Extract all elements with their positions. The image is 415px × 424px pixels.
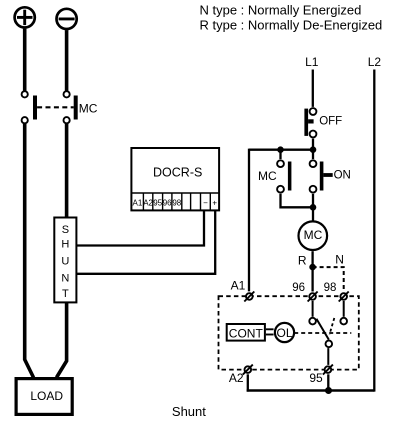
overload element OL <box>275 323 294 342</box>
dashed wire N option to 98 <box>313 267 344 291</box>
wire shunt bottom to LOAD <box>57 302 67 377</box>
svg-text:MC: MC <box>304 228 323 242</box>
svg-text:T: T <box>62 288 69 300</box>
svg-text:R type : Normally De-Energized: R type : Normally De-Energized <box>200 17 383 32</box>
svg-text:A2: A2 <box>229 371 244 385</box>
svg-text:N: N <box>335 253 344 267</box>
svg-text:96: 96 <box>292 282 305 294</box>
terminal A1 <box>244 292 254 302</box>
pushbutton OFF (NC) <box>304 108 316 137</box>
load box LOAD <box>16 379 72 415</box>
svg-text:ON: ON <box>334 169 351 181</box>
control unit CONT <box>227 324 265 341</box>
svg-text:A1: A1 <box>231 279 246 293</box>
contact point 96 side <box>309 318 316 325</box>
svg-text:98: 98 <box>172 199 181 208</box>
svg-text:MC: MC <box>79 101 98 115</box>
DOCR-S terminal strip <box>131 193 219 210</box>
wire L1 down <box>312 70 314 107</box>
svg-text:95: 95 <box>309 371 323 385</box>
junction dot R node <box>309 264 316 271</box>
wire ON to coil <box>312 194 314 221</box>
wire coil to terminal 96 <box>311 251 313 291</box>
contactor MC main contact pole 1 <box>22 91 37 123</box>
svg-text:N type : Normally Energized: N type : Normally Energized <box>200 2 362 17</box>
svg-text:96: 96 <box>163 199 172 208</box>
wire MC aux bottom <box>281 194 314 208</box>
svg-text:LOAD: LOAD <box>30 389 63 403</box>
link CONT to OL <box>266 329 274 334</box>
wire 95 to bottom rail <box>327 374 329 390</box>
svg-text:L2: L2 <box>368 55 382 69</box>
wire 96 to contact <box>312 301 314 317</box>
battery positive terminal <box>15 7 35 27</box>
svg-text:OL: OL <box>276 326 292 340</box>
MC contact linkage dashed <box>37 106 74 108</box>
common contact point <box>326 341 333 348</box>
svg-text:U: U <box>61 255 69 267</box>
svg-text:Shunt: Shunt <box>172 404 206 419</box>
shunt resistor SHUNT <box>54 218 76 303</box>
svg-text:+: + <box>212 199 217 208</box>
svg-text:DOCR-S: DOCR-S <box>153 166 202 180</box>
wire rail to ON <box>312 150 314 159</box>
wire DOCR-S minus to shunt <box>76 211 204 246</box>
svg-text:L1: L1 <box>305 55 319 69</box>
svg-text:S: S <box>62 224 69 236</box>
terminal A2 <box>243 365 253 375</box>
svg-text:A1: A1 <box>133 199 143 208</box>
wire L2 down <box>373 70 375 392</box>
bottom rail wire <box>247 389 375 391</box>
svg-text:OFF: OFF <box>319 115 342 127</box>
svg-text:H: H <box>61 239 69 251</box>
wire rail down to A1 <box>248 149 250 292</box>
svg-text:−: − <box>203 199 208 208</box>
junction dot rail-ON <box>310 146 317 153</box>
terminal 96 <box>308 292 318 302</box>
contactor MC main contact pole 2 <box>64 91 78 123</box>
wire 98 to contact <box>343 301 345 317</box>
junction dot below ON <box>310 204 317 211</box>
junction dot rail-MC <box>277 146 284 153</box>
pushbutton ON (NO) <box>310 160 333 192</box>
wire DOCR-S plus to shunt <box>76 211 215 274</box>
svg-text:N: N <box>61 272 69 284</box>
auxiliary contact MC (NO) <box>277 160 291 192</box>
wire from - terminal down <box>65 30 69 91</box>
wire OFF to rail <box>312 139 314 150</box>
terminal 98 <box>339 292 349 302</box>
wire left pole down to LOAD <box>25 124 34 378</box>
svg-text:CONT: CONT <box>229 326 264 340</box>
svg-text:MC: MC <box>258 169 277 183</box>
contact point 98 side <box>340 318 347 325</box>
dashed relay boundary box <box>219 296 359 369</box>
wire rail to MC aux <box>279 150 281 159</box>
rail wire <box>249 149 313 151</box>
svg-text:98: 98 <box>324 282 337 294</box>
moving contact blade <box>316 319 328 340</box>
svg-text:95: 95 <box>153 199 162 208</box>
coil MC <box>299 221 328 250</box>
alternate position dashed blade <box>330 318 335 334</box>
terminal 95 <box>323 365 333 375</box>
wire common to 95 <box>327 348 329 365</box>
wire right pole down to SHUNT <box>65 124 69 218</box>
wire A2 to bottom rail <box>247 374 249 391</box>
relay DOCR-S box <box>131 148 219 210</box>
junction dot 95-rail <box>325 387 332 394</box>
dashed actuating line OL to contact <box>294 332 351 334</box>
wire from + terminal down <box>23 29 27 91</box>
svg-text:A2: A2 <box>143 199 153 208</box>
battery negative terminal <box>57 9 77 29</box>
svg-text:R: R <box>298 254 307 268</box>
